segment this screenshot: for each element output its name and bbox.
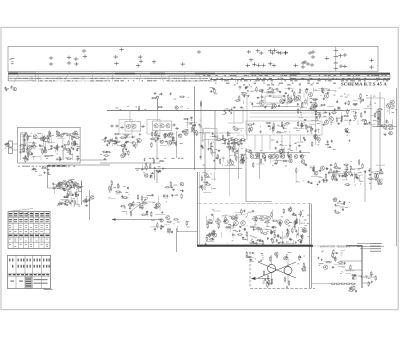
svg-text:SCHEMA B.T.S 45 A: SCHEMA B.T.S 45 A bbox=[341, 81, 387, 86]
svg-text:VARIATORI TENSIONI: VARIATORI TENSIONI bbox=[320, 245, 351, 249]
